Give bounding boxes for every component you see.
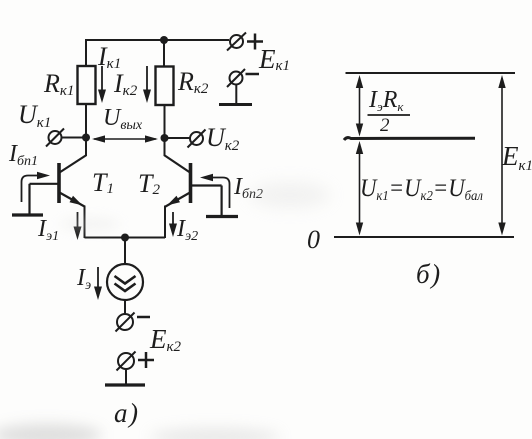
current arrow Ie1 xyxy=(74,212,82,240)
label T2 xyxy=(138,169,160,198)
svg-text:T2: T2 xyxy=(138,169,160,198)
wire Uk1 terminal to node xyxy=(62,137,87,139)
node junction top rail xyxy=(160,36,168,44)
svg-text:Uвых: Uвых xyxy=(103,105,143,133)
svg-text:IэRк: IэRк xyxy=(368,87,404,114)
wire R2 to collector node xyxy=(164,105,166,138)
graph balance level line xyxy=(344,138,475,140)
svg-text:Rк1: Rк1 xyxy=(43,69,74,99)
wire base T1 xyxy=(30,184,60,214)
measure arrow IeRk/2 span xyxy=(356,75,363,137)
label Ek1 xyxy=(258,44,290,74)
label Ibp2 xyxy=(233,174,263,202)
label Ik1 xyxy=(97,42,121,72)
graph top level line xyxy=(346,72,516,74)
label Ek2 xyxy=(149,324,182,355)
terminal +Ek2 xyxy=(117,352,155,371)
terminal Uk2 xyxy=(188,130,206,148)
graph zero axis line xyxy=(334,236,514,238)
terminal +Ek1 xyxy=(227,33,263,51)
label Ik2 xyxy=(113,69,138,99)
wire R1 to collector node xyxy=(85,104,87,138)
svg-text:Uк1=Uк2=Uбал: Uк1=Uк2=Uбал xyxy=(360,175,483,204)
current arrow Ibp1 xyxy=(22,172,51,202)
label Uvyh xyxy=(103,105,143,133)
terminal -Ek1 ground side xyxy=(227,69,259,87)
node emitters common xyxy=(121,234,129,242)
svg-text:Eк2: Eк2 xyxy=(149,324,182,355)
terminal -Ek2 xyxy=(116,313,151,332)
svg-text:Iбп1: Iбп1 xyxy=(8,141,38,169)
resistor Rk2 xyxy=(156,67,174,106)
current arrow Ie2 xyxy=(169,212,177,237)
svg-text:Uк1: Uк1 xyxy=(18,100,51,131)
wire terminal to ground bottom xyxy=(125,368,127,385)
svg-text:Iэ: Iэ xyxy=(76,265,91,293)
label Ibp1 xyxy=(8,141,38,169)
svg-text:б): б) xyxy=(416,259,442,289)
measure arrow Ek1 span xyxy=(498,75,505,236)
label b) xyxy=(416,259,442,289)
label Uk1=Uk2=Ubal xyxy=(360,175,483,204)
svg-text:2: 2 xyxy=(380,115,390,136)
label Uk1 xyxy=(18,100,51,131)
measure arrow Uvyh xyxy=(92,135,158,142)
svg-text:а): а) xyxy=(114,398,140,428)
label Ek1 graph xyxy=(501,141,532,174)
current source Ie xyxy=(107,264,143,300)
wire rail to R1 xyxy=(85,39,87,66)
label Rk2 xyxy=(177,67,209,97)
svg-text:Iк1: Iк1 xyxy=(97,42,121,72)
label Rk1 xyxy=(43,69,74,99)
label Ie xyxy=(76,265,91,293)
wire node to current source xyxy=(124,238,126,265)
label Ie1 xyxy=(37,216,59,244)
node collector T2 xyxy=(161,134,169,142)
svg-text:Iк2: Iк2 xyxy=(113,69,138,99)
svg-text:T1: T1 xyxy=(92,168,114,197)
wire source to terminal xyxy=(124,300,126,315)
terminal Uk1 xyxy=(46,129,64,147)
wire rail junction to R2 xyxy=(163,40,165,67)
ground base T1 xyxy=(12,213,43,216)
label Uk2 xyxy=(206,123,240,154)
current arrow Ik1 xyxy=(98,66,106,103)
label a) xyxy=(114,398,140,428)
svg-text:Eк1: Eк1 xyxy=(258,44,290,74)
label 0 origin xyxy=(307,225,320,254)
svg-text:Eк1: Eк1 xyxy=(501,141,532,174)
ground bottom xyxy=(105,383,145,386)
node collector T1 xyxy=(82,134,90,142)
svg-text:Uк2: Uк2 xyxy=(206,123,240,154)
label fraction IeRk/2 xyxy=(368,87,411,136)
label T1 xyxy=(92,168,114,197)
svg-text:Rк2: Rк2 xyxy=(177,67,209,97)
ground top right xyxy=(219,103,252,106)
current arrow Ibp2 xyxy=(200,174,230,208)
svg-text:0: 0 xyxy=(307,225,320,254)
wire emitters bottom xyxy=(85,237,166,239)
ground base T2 xyxy=(206,215,238,218)
wire terminal to ground xyxy=(235,85,237,105)
measure arrow Ubal span xyxy=(356,141,363,236)
current arrow Ik2 xyxy=(143,66,151,103)
svg-text:Iэ2: Iэ2 xyxy=(176,216,198,244)
resistor Rk1 xyxy=(78,66,96,104)
transistor T2 xyxy=(164,138,191,238)
wire top rail xyxy=(86,39,229,41)
label Ie2 xyxy=(176,216,198,244)
wire node to Uk2 terminal xyxy=(165,137,191,139)
svg-text:Iэ1: Iэ1 xyxy=(37,216,59,244)
wire base T2 xyxy=(191,186,222,216)
transistor T1 xyxy=(59,138,87,239)
current arrow Ie xyxy=(94,267,102,300)
